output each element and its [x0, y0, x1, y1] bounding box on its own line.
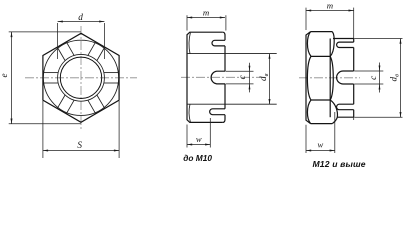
middle view face lines — [187, 53, 277, 55]
svg-text:e: e — [0, 73, 9, 77]
slot at 180 deg (edge pair) — [43, 82, 58, 84]
dimension e — [9, 31, 81, 33]
svg-text:c: c — [368, 76, 378, 80]
lower-right chamfer arc — [330, 100, 337, 124]
dimension d_B (middle view) — [269, 54, 271, 105]
right nut hex part: left edge — [306, 32, 311, 124]
svg-text:до М10: до М10 — [183, 153, 212, 163]
slot at 60 deg (edge pair) — [88, 42, 96, 55]
dimension w (middle view) — [186, 125, 188, 148]
dimension m (middle view) — [186, 15, 188, 30]
dimension m (right view) — [305, 8, 307, 30]
middle-right chamfer arc — [330, 56, 333, 100]
chamfer circle — [43, 40, 118, 115]
dimension c (middle view) — [226, 70, 254, 72]
upper-left chamfer arc — [307, 32, 311, 57]
hex bottom edge — [311, 123, 333, 125]
waist boundary lines — [311, 55, 330, 57]
dimension S — [42, 101, 44, 158]
thread major circle — [58, 54, 105, 101]
middle nut body outline — [187, 32, 223, 122]
hexagon outline — [43, 33, 119, 122]
hex top edge — [311, 31, 333, 33]
slot at 120 deg (edge pair) — [57, 47, 65, 60]
middle-left chamfer arc — [307, 56, 311, 100]
dimension d — [57, 23, 59, 59]
crown outline — [333, 38, 354, 40]
svg-text:М12 и выше: М12 и выше — [313, 159, 366, 169]
crown interface line — [329, 39, 331, 118]
right view axis centerline — [299, 77, 360, 79]
right view slots — [337, 71, 354, 84]
slot at 0 deg (edge pair) — [104, 72, 119, 74]
lower-left chamfer arc — [307, 100, 311, 124]
hole circle — [60, 57, 101, 98]
svg-text:w: w — [196, 134, 202, 144]
svg-text:c: c — [237, 75, 247, 79]
svg-text:w: w — [318, 140, 324, 150]
svg-text:d: d — [78, 12, 83, 22]
middle view axis centerline — [181, 76, 265, 78]
middle view slots — [211, 71, 225, 84]
upper-right chamfer arc — [330, 32, 334, 57]
dimension c (right view) — [354, 70, 383, 72]
svg-text:S: S — [77, 140, 82, 150]
slot at 300 deg (edge pair) — [97, 95, 105, 108]
svg-text:m: m — [327, 0, 333, 10]
dimension d_B (right view, crown dia) — [354, 38, 402, 40]
chamfer arcs left end — [189, 33, 190, 54]
slot at 240 deg (edge pair) — [67, 100, 75, 113]
nut top view: centerlines — [25, 77, 137, 79]
svg-text:m: m — [203, 8, 209, 18]
dimension w (right view) — [305, 125, 307, 153]
